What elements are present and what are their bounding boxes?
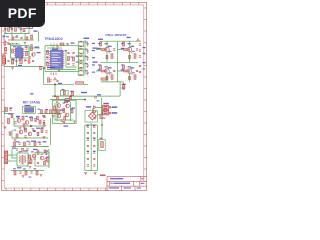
wire mic row rail — [38, 113, 62, 115]
value label V39 — [46, 109, 49, 110]
wire opamp feedback — [28, 47, 30, 57]
wire R11 to bus — [84, 83, 89, 85]
resistor R48 — [30, 160, 32, 164]
vcc loop P1 — [29, 25, 33, 29]
value label V36 — [70, 109, 73, 110]
ground G19 — [63, 122, 66, 124]
capacitor CF5 value — [92, 72, 95, 73]
output cap box — [99, 140, 105, 151]
resistor R37 — [22, 116, 24, 120]
capacitor C38 — [113, 49, 115, 50]
resistor R49 — [14, 171, 16, 175]
resistor R72 — [44, 150, 46, 153]
net label bot4 — [44, 150, 48, 151]
pins under TPA box — [51, 73, 56, 76]
capacitor C54 — [32, 60, 34, 61]
capacitor CR6 — [93, 158, 95, 159]
resistor R62 — [43, 123, 45, 126]
junction node A — [54, 84, 56, 86]
wire above preamp box — [10, 43, 20, 45]
value label V34 — [56, 102, 59, 103]
capacitor CF3 lead — [87, 56, 89, 61]
capacitor C13 — [67, 63, 69, 64]
ground G12 — [40, 175, 43, 177]
value label V13 — [46, 62, 49, 63]
op-amp IC1 body — [16, 48, 24, 58]
terminal OUT2 — [109, 112, 111, 114]
value label V68 — [97, 100, 100, 101]
value label V10 — [19, 59, 22, 60]
connector J3 — [4, 151, 7, 164]
capacitor C40 — [113, 70, 115, 71]
net label driver top — [66, 101, 71, 102]
title block document number text — [114, 183, 131, 184]
net label top right corner — [127, 37, 131, 38]
capacitor C31 — [39, 143, 41, 144]
wire input riser A — [5, 27, 7, 34]
capacitor C25 — [34, 120, 36, 121]
wire mosfet center column — [117, 41, 119, 62]
resistor R10 — [20, 59, 22, 64]
resistor R45 — [24, 142, 26, 146]
resistor R11 — [76, 82, 84, 84]
ground G15 — [14, 140, 17, 142]
value label V45 — [14, 130, 17, 131]
value label V54 — [93, 151, 96, 152]
value label V25 — [121, 64, 124, 65]
net label U1 right — [76, 56, 80, 57]
pins above TPA box — [51, 44, 57, 46]
transistor Q7 — [66, 104, 70, 108]
resistor R43 — [41, 129, 43, 133]
wire mosfet mid bus — [100, 61, 138, 63]
wire bottom link right — [44, 146, 49, 148]
value label V67 — [103, 118, 106, 119]
resistor R67 — [22, 148, 24, 151]
net label mic4 — [8, 113, 12, 114]
transistor Q10 — [17, 119, 21, 123]
capacitor C29 — [18, 143, 20, 144]
resistor R18 — [100, 42, 102, 46]
value label V26 — [109, 51, 112, 52]
capacitor C17 — [139, 44, 141, 45]
value label V55 — [100, 138, 103, 139]
capacitor CR1 — [93, 126, 95, 127]
transformer T1 windings — [20, 155, 26, 165]
capacitor CR7 — [93, 165, 95, 166]
capacitor C46 — [33, 158, 35, 159]
resistor R55 — [106, 55, 108, 58]
net label bot3 — [33, 149, 38, 150]
value label V30 — [143, 53, 146, 54]
wire bottom rail 1 — [11, 146, 48, 148]
net label mic1 — [16, 116, 20, 117]
value label V24 — [98, 64, 101, 65]
connector J2 body lower — [103, 110, 109, 115]
resistor R35 — [100, 114, 102, 119]
resistor R7 — [31, 47, 33, 51]
terminal OUT1 — [109, 106, 111, 108]
svg-text:MIC STAGE: MIC STAGE — [23, 101, 40, 105]
frame inner border — [4, 5, 144, 188]
net label VOUT — [143, 62, 146, 63]
title block project name text — [110, 178, 123, 180]
transistor Q15 — [40, 156, 44, 160]
capacitor C4 — [16, 36, 18, 37]
value label V38 — [38, 109, 41, 110]
net label bridge top — [86, 106, 91, 107]
ground G1 — [7, 43, 10, 45]
capacitor C32 — [45, 153, 47, 154]
capacitor CR3 — [93, 139, 95, 140]
transistor Q5 body — [127, 69, 131, 73]
net label IN1 — [14, 25, 19, 26]
value label V65 — [34, 168, 37, 169]
net label drain3 — [105, 66, 108, 67]
capacitor C45 — [24, 136, 26, 137]
value label V57 — [27, 141, 30, 142]
value label V48 — [41, 127, 44, 128]
capacitor CL6 — [87, 158, 89, 159]
ground G3 — [11, 68, 14, 70]
resistor R1 — [8, 28, 10, 32]
transformer T1 box — [17, 153, 28, 166]
resistor RM5 — [58, 110, 60, 114]
capacitor C27 — [33, 130, 35, 131]
value label V50 — [93, 125, 96, 126]
title block sheet text — [124, 187, 132, 188]
capacitor C14 — [72, 52, 74, 53]
value label V52 — [93, 137, 96, 138]
net label gate4 — [121, 69, 124, 70]
resistor R34 — [70, 96, 72, 100]
net label driver mid — [72, 108, 76, 109]
value label V20 — [85, 63, 88, 64]
wire mosfet stub 5 — [106, 74, 108, 82]
wire junction drop — [54, 85, 56, 97]
transistor Q3 body — [127, 47, 131, 51]
resistor R5 — [12, 49, 14, 53]
PDF badge — [0, 0, 45, 27]
title block REV text — [142, 178, 144, 179]
capacitor C23 — [101, 142, 104, 148]
capacitor C1 — [4, 28, 6, 29]
resistor R19 — [123, 42, 125, 46]
resistor R75 — [29, 155, 31, 159]
capacitor C51 — [43, 67, 45, 68]
capacitor C48 right bend — [122, 83, 127, 89]
value label V23 — [121, 43, 124, 44]
net label bot2 — [43, 141, 47, 142]
value label V17 — [85, 42, 88, 43]
resistor R36 — [6, 108, 8, 112]
wire input riser B — [11, 27, 13, 34]
junction node C — [54, 95, 56, 97]
resistor R42 — [16, 134, 18, 138]
value label V7 — [25, 46, 28, 47]
wire ladder bottom link — [85, 170, 98, 172]
vcc arrow node B — [54, 78, 57, 80]
output ladder top label — [84, 38, 90, 39]
capacitor C5 — [25, 48, 27, 49]
capacitor CF2 lead — [87, 49, 89, 54]
resistor R8 — [3, 58, 5, 64]
wire bottom right riser — [48, 149, 50, 168]
diode D2 — [94, 106, 97, 109]
ground G9 — [52, 116, 55, 118]
capacitor C35 — [30, 172, 32, 173]
resistor R39 — [39, 120, 41, 124]
resistor R20 — [100, 65, 102, 69]
capacitor CR4 — [93, 145, 95, 146]
capacitor C2 — [11, 28, 13, 29]
value label V51 — [87, 137, 90, 138]
net label gate2 — [121, 48, 124, 49]
resistor R32 — [55, 109, 57, 113]
value label V3 — [26, 28, 29, 29]
capacitor C22 — [95, 96, 96, 98]
resistor R44 — [14, 142, 16, 146]
diode D3 — [94, 110, 97, 113]
net label bus1 — [81, 92, 87, 93]
inductor L2 coil — [79, 49, 82, 53]
capacitor C6 — [29, 57, 31, 58]
resistor RM2 — [45, 110, 47, 114]
capacitor CL2 — [87, 132, 89, 133]
wire gate feed 4 — [118, 70, 124, 72]
bridge rectifier box — [85, 111, 97, 122]
value label V8 — [30, 45, 33, 46]
wire input top rail — [4, 33, 30, 35]
value label V44 — [42, 116, 45, 117]
title block document label red — [110, 183, 113, 184]
ic U1 TPA3116 body — [51, 50, 64, 69]
pin marks left edge — [3, 37, 5, 39]
value label V19 — [85, 56, 88, 57]
net label IN2 — [34, 31, 38, 32]
value label V43 — [34, 118, 37, 119]
value label V15 — [71, 57, 74, 58]
capacitor C26 — [43, 121, 45, 122]
transistor Q4 drain wire — [108, 67, 110, 75]
transistor Q6 — [57, 104, 61, 108]
net label above left cell — [98, 39, 103, 40]
capacitor C52 — [56, 80, 58, 81]
capacitor C34 — [19, 172, 21, 173]
resistor R57 — [106, 76, 108, 79]
value label V31 — [143, 69, 146, 70]
ground G11 — [22, 176, 25, 178]
resistor R15 — [68, 57, 70, 61]
capacitor C11 — [46, 58, 48, 59]
transistor Q3 gate resistor — [124, 49, 127, 51]
inductor L4 coil — [79, 63, 82, 67]
value label V32 — [62, 89, 65, 90]
capacitor CF2 — [86, 51, 88, 52]
svg-text:FINAL MOSFET: FINAL MOSFET — [105, 33, 127, 37]
resistor R13 — [47, 51, 49, 55]
resistor R56 — [129, 55, 131, 58]
resistor R4 — [31, 35, 33, 39]
value label V62 — [19, 151, 22, 152]
wire mic mid — [14, 118, 46, 126]
capacitor CL3 — [87, 139, 89, 140]
wire input drop E — [11, 34, 13, 41]
resistor R16 — [73, 57, 75, 61]
junction node D — [84, 99, 86, 101]
terminal T2 — [45, 159, 47, 161]
capacitor CF1 — [86, 43, 88, 44]
net label busmid — [97, 94, 101, 95]
ic U1 pin rows — [49, 52, 65, 66]
transistor Q11 — [25, 121, 29, 125]
resistor R12 — [48, 78, 50, 83]
wire bottom cluster — [28, 157, 32, 159]
capacitor C21 — [139, 71, 141, 72]
vcc arrow top right — [137, 39, 140, 41]
resistor R53 — [12, 37, 14, 40]
ground G5 — [94, 118, 97, 120]
net label drain1 — [105, 43, 108, 44]
resistor R25 — [134, 75, 136, 80]
bridge rectifier B1 — [89, 112, 97, 120]
TPA3116 driver section box — [45, 46, 78, 72]
ground G16 — [43, 137, 46, 139]
wire mosfet stub 1 — [106, 41, 108, 47]
inductor L3 box — [78, 56, 83, 62]
net label below TPA — [47, 67, 55, 68]
ic U1 inner text — [52, 53, 61, 66]
transistor Q5 label — [131, 67, 135, 68]
value label V42 — [25, 116, 28, 117]
wire mic left — [5, 107, 15, 114]
net label OUTB — [93, 62, 98, 63]
wire gate feed 3 — [96, 70, 101, 72]
capacitor C37 — [8, 43, 10, 44]
net label above box — [71, 43, 75, 44]
wire ladder top link — [85, 124, 98, 126]
resistor R2 — [15, 28, 17, 32]
driver stage label — [60, 110, 64, 111]
value label V41 — [17, 117, 20, 118]
wire driver internal — [55, 103, 74, 120]
capacitor CR2 — [93, 132, 95, 133]
ground G4 — [58, 70, 61, 72]
net label cluster top — [103, 103, 109, 104]
value label V5 — [15, 37, 18, 38]
wire ladder right rail — [97, 125, 99, 171]
wire mosfet stub 4 — [129, 52, 131, 62]
value label V12 — [46, 57, 49, 58]
resistor R71 — [28, 60, 30, 63]
capacitor C30 — [28, 143, 30, 144]
capacitor C28 — [45, 131, 47, 132]
wire bottom rail 2 — [11, 170, 44, 172]
value label V1 — [9, 27, 12, 28]
wire connector to transformer 2 — [8, 160, 17, 162]
wire lower horizontal bus — [50, 99, 85, 101]
resistor R21 — [123, 65, 125, 69]
value label V21 — [85, 70, 88, 71]
resistor R27 — [63, 91, 65, 95]
net label bot7 — [12, 148, 16, 149]
capacitor CF4 lead — [87, 63, 89, 68]
capacitor C41 — [136, 70, 138, 71]
title block rev cell text — [140, 183, 144, 184]
inductor L4 box — [78, 63, 83, 69]
wire box link — [101, 111, 103, 140]
capacitor C55 — [28, 162, 30, 163]
capacitor CL7 — [87, 165, 89, 166]
net label drain2 — [128, 43, 131, 44]
net label OUT1 — [112, 106, 118, 108]
value label V14 — [65, 50, 68, 51]
value label V40 — [53, 109, 56, 110]
ground G8 — [43, 116, 46, 118]
capacitor CL5 — [87, 152, 89, 153]
title block dividers — [109, 176, 144, 190]
value label V63 — [13, 168, 16, 169]
resistor R73 — [64, 117, 66, 121]
transistor Q1 — [32, 53, 35, 56]
frame ruler ticks vertical — [2, 8, 147, 181]
resistor R51 — [36, 171, 38, 175]
ground G7 — [94, 173, 97, 175]
capacitor CR5 — [93, 152, 95, 153]
mic module MK1 — [23, 107, 36, 114]
net label below driver box — [64, 126, 69, 127]
net label drain4 — [128, 66, 131, 67]
net label MID — [58, 83, 62, 84]
ground G10 — [4, 127, 7, 129]
wire connector to transformer — [8, 154, 17, 156]
value label V60 — [41, 154, 44, 155]
ground G14 — [32, 129, 35, 131]
transistor Q5 drain wire — [131, 67, 133, 75]
net label IN3 — [3, 36, 6, 37]
net label bot5 — [17, 167, 22, 168]
wire driver inner v1 — [56, 102, 58, 121]
capacitor C49 — [16, 149, 18, 150]
title block sheet num text — [137, 187, 142, 188]
net label OUT2 — [112, 112, 118, 114]
net label gate3 — [98, 69, 101, 70]
wire lower-left rail — [4, 66, 44, 68]
wire input riser C — [20, 27, 22, 34]
value label V22 — [98, 43, 101, 44]
wire mosfet top bus — [100, 40, 141, 42]
net label bot1 — [31, 141, 36, 142]
net label AUD — [18, 65, 22, 66]
resistor R3 — [23, 28, 25, 32]
capacitor C39 — [136, 49, 138, 50]
resistor R33 — [71, 109, 73, 113]
resistor RM3 — [50, 110, 52, 114]
resistor R41 — [25, 128, 27, 132]
inductor L5 box — [78, 70, 83, 76]
net label PRE — [35, 47, 40, 48]
wire mosfet center lower — [117, 62, 119, 82]
resistor R28 — [71, 91, 73, 96]
wire mosfet stub 6 — [129, 74, 131, 82]
transistor Q8 — [57, 114, 61, 118]
capacitor C24 — [9, 109, 11, 110]
wire mid drop — [16, 58, 18, 67]
page background — [0, 0, 149, 198]
resistor R24 — [111, 75, 113, 80]
resistor RM4 — [54, 110, 56, 114]
resistor R22 — [111, 54, 113, 59]
